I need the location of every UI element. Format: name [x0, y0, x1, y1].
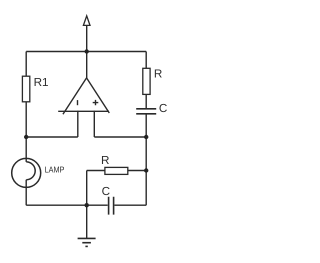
svg-text:C: C	[159, 102, 167, 115]
svg-text:C: C	[102, 185, 110, 198]
svg-text:LAMP: LAMP	[45, 165, 65, 175]
svg-text:R1: R1	[34, 76, 49, 89]
svg-text:R: R	[101, 154, 109, 167]
svg-text:R: R	[154, 67, 162, 80]
